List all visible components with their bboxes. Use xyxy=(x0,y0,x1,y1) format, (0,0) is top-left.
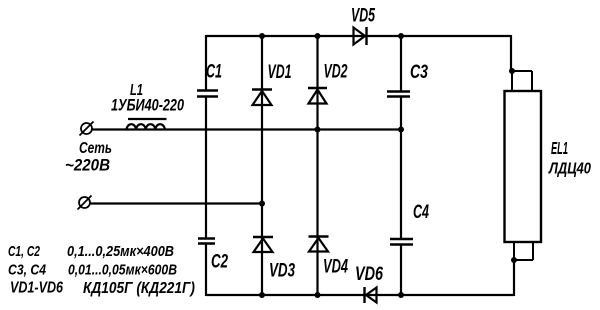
svg-text:С3, С4: С3, С4 xyxy=(8,262,47,279)
svg-text:ЛДЦ40: ЛДЦ40 xyxy=(548,161,591,178)
junction lamp top pin xyxy=(509,68,515,74)
diode VD5 xyxy=(354,27,367,45)
junction bottom rail / C4 xyxy=(398,292,404,298)
capacitor C1 xyxy=(197,91,218,97)
svg-text:C1: C1 xyxy=(206,61,222,83)
terminal X1 (mains phase) xyxy=(80,122,94,136)
svg-text:VD5: VD5 xyxy=(351,5,376,27)
capacitor C4 xyxy=(390,239,413,245)
wire C3/C4 branch xyxy=(400,36,402,295)
junction lamp bottom pin xyxy=(511,257,517,263)
wire VD2/VD4 branch xyxy=(316,36,318,295)
svg-text:КД105Г (КД221Г): КД105Г (КД221Г) xyxy=(83,280,195,297)
value label C3, C4 row xyxy=(8,262,177,279)
svg-text:C2: C2 xyxy=(211,251,228,273)
diode VD1 xyxy=(252,90,272,106)
svg-text:VD6: VD6 xyxy=(355,263,383,285)
diode VD6 xyxy=(365,287,377,303)
svg-text:VD1-VD6: VD1-VD6 xyxy=(10,280,63,297)
svg-text:С1, С2: С1, С2 xyxy=(8,243,40,260)
diode VD2 xyxy=(308,88,327,104)
lamp EL1 bottom pins xyxy=(514,242,533,260)
inductor L1 xyxy=(127,119,167,130)
junction bottom rail / VD4 xyxy=(315,292,321,298)
svg-text:EL1: EL1 xyxy=(551,138,568,158)
value label VD1-VD6 row xyxy=(10,280,195,298)
junction top rail / VD1 xyxy=(259,33,265,39)
terminal X2 (mains neutral) xyxy=(78,196,92,210)
wire phase rail from L1 xyxy=(92,128,401,130)
wire top rail xyxy=(206,35,511,37)
value label C1, C2 row xyxy=(8,243,174,260)
wire neutral rail xyxy=(90,202,262,204)
junction bottom rail / VD3 xyxy=(259,292,265,298)
svg-text:~220В: ~220В xyxy=(65,157,110,175)
wire right drop to lamp top xyxy=(510,35,512,71)
wire C1/C2 branch xyxy=(205,35,207,296)
lamp EL1 tube xyxy=(505,91,542,242)
junction phase rail / C3-C4 xyxy=(398,127,404,133)
svg-text:Сеть: Сеть xyxy=(79,140,112,157)
diode VD3 xyxy=(253,237,273,252)
capacitor C3 xyxy=(387,92,410,97)
svg-text:0,01...0,05мк×600В: 0,01...0,05мк×600В xyxy=(68,262,177,279)
svg-text:VD2: VD2 xyxy=(324,61,348,83)
wire bottom rail xyxy=(206,294,514,296)
svg-text:C4: C4 xyxy=(413,201,429,223)
junction top rail / C3 xyxy=(398,33,404,39)
svg-text:1УБИ40-220: 1УБИ40-220 xyxy=(111,96,184,115)
wire VD1/VD3 branch xyxy=(261,36,263,295)
svg-text:VD3: VD3 xyxy=(269,260,295,282)
lamp EL1 top pins xyxy=(512,71,532,91)
svg-text:C3: C3 xyxy=(410,61,428,83)
junction phase rail / VD2 xyxy=(315,127,321,133)
capacitor C2 xyxy=(198,239,215,244)
svg-text:0,1...0,25мк×400В: 0,1...0,25мк×400В xyxy=(67,243,174,260)
diode VD4 xyxy=(309,237,329,252)
junction neutral rail / VD1-VD3 xyxy=(259,201,265,207)
svg-text:VD4: VD4 xyxy=(323,256,348,278)
svg-text:VD1: VD1 xyxy=(268,61,292,83)
junction top rail / VD2 xyxy=(315,33,321,39)
wire lamp bottom drop xyxy=(513,260,515,296)
